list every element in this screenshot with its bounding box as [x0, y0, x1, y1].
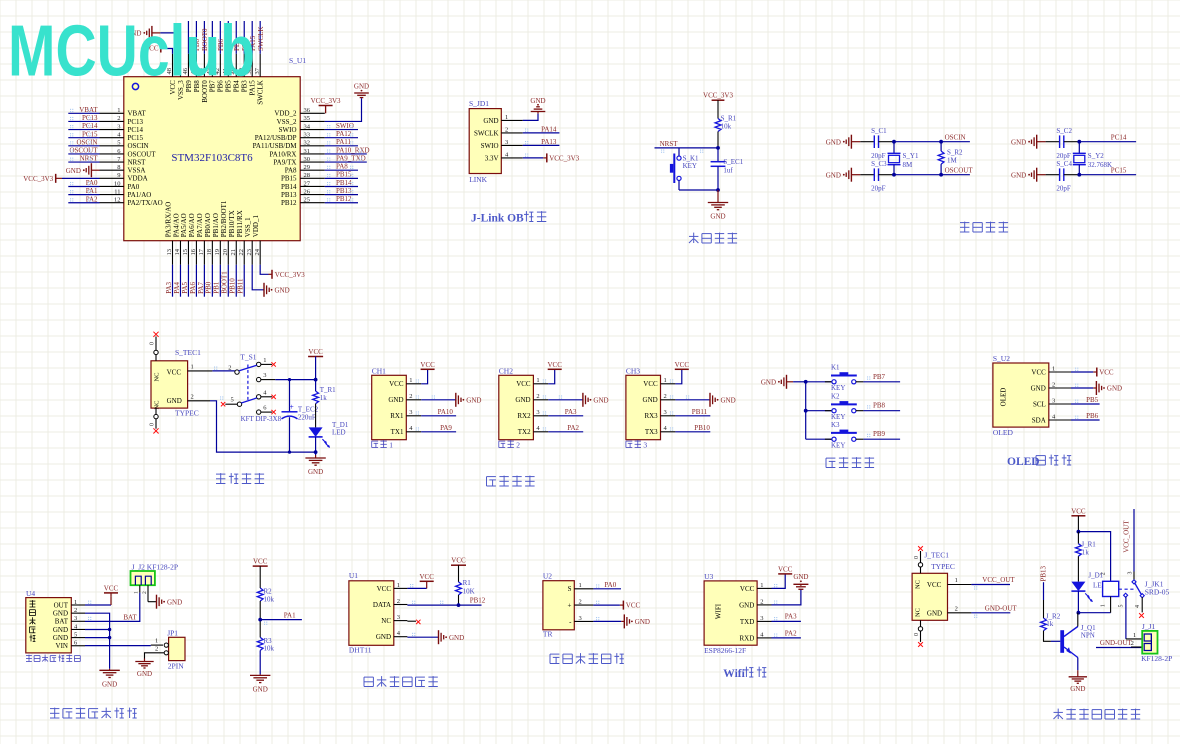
svg-text:3: 3 — [117, 123, 120, 130]
svg-text:PA11: PA11 — [336, 138, 352, 146]
svg-text:PB10: PB10 — [229, 278, 237, 294]
svg-text:TR: TR — [543, 630, 553, 639]
svg-text:VCC: VCC — [389, 380, 404, 388]
svg-text:GND: GND — [102, 680, 117, 688]
svg-text:PA6/AO: PA6/AO — [188, 213, 196, 237]
svg-text:GND: GND — [593, 396, 608, 404]
svg-text:VSS_1: VSS_1 — [244, 217, 252, 237]
svg-text:PA5: PA5 — [181, 281, 189, 293]
svg-text:R2: R2 — [264, 588, 273, 596]
svg-text:GND: GND — [739, 601, 754, 609]
svg-text:SWIO: SWIO — [336, 122, 354, 130]
svg-text:PA12: PA12 — [336, 130, 352, 138]
svg-text:CH2: CH2 — [499, 367, 513, 376]
svg-text:GND: GND — [483, 117, 498, 125]
svg-text:PC15: PC15 — [82, 130, 98, 138]
svg-text:2: 2 — [74, 607, 77, 614]
svg-text:VCC: VCC — [643, 380, 658, 388]
svg-text:20pF: 20pF — [1056, 185, 1071, 193]
svg-text:2: 2 — [505, 126, 508, 133]
svg-text:NC: NC — [915, 580, 922, 589]
svg-text:2: 2 — [516, 441, 520, 450]
svg-text:TYPEC: TYPEC — [931, 562, 955, 571]
svg-text:PC14: PC14 — [128, 126, 144, 134]
svg-text:GND: GND — [721, 396, 736, 404]
svg-text:LED: LED — [332, 428, 346, 436]
svg-text:10k: 10k — [721, 122, 732, 130]
svg-text:U2: U2 — [543, 571, 552, 580]
svg-text:2: 2 — [536, 393, 539, 400]
svg-text:5: 5 — [117, 140, 120, 147]
svg-text:PA13: PA13 — [541, 138, 557, 146]
svg-text:3: 3 — [263, 372, 266, 379]
svg-text:VCC: VCC — [308, 348, 323, 356]
svg-text:3: 3 — [1052, 397, 1055, 404]
svg-text:PA3/RX/AO: PA3/RX/AO — [164, 202, 172, 238]
svg-text:2: 2 — [409, 393, 412, 400]
svg-text:3: 3 — [74, 615, 77, 622]
svg-text:2: 2 — [142, 591, 148, 594]
svg-text:VCC: VCC — [167, 368, 182, 376]
svg-text:PB10/TX: PB10/TX — [228, 210, 236, 237]
svg-text:GND: GND — [635, 618, 650, 626]
svg-text:K2: K2 — [831, 393, 840, 401]
svg-text:2: 2 — [955, 606, 958, 613]
svg-text:VDD_2: VDD_2 — [274, 110, 297, 118]
svg-text:VCC: VCC — [419, 573, 434, 581]
svg-text:NC: NC — [915, 608, 922, 617]
svg-text:GND-OUT: GND-OUT — [1100, 639, 1133, 647]
svg-text:1: 1 — [263, 357, 266, 364]
svg-text:PA0: PA0 — [604, 581, 616, 589]
svg-text:NC: NC — [381, 617, 391, 625]
svg-text:TX3: TX3 — [645, 428, 658, 436]
svg-text:OSCIN: OSCIN — [128, 142, 149, 150]
svg-text:30: 30 — [304, 156, 311, 163]
svg-text:1: 1 — [191, 364, 194, 371]
svg-text:GND: GND — [761, 378, 776, 386]
svg-text:1k: 1k — [320, 394, 328, 402]
svg-text:J-Link OB: J-Link OB — [471, 213, 524, 225]
svg-text:VCC_3V3: VCC_3V3 — [549, 154, 579, 162]
svg-text:PA2: PA2 — [567, 424, 579, 432]
svg-text:20pF: 20pF — [871, 152, 886, 160]
svg-text:8M: 8M — [903, 161, 914, 169]
svg-text:PB12: PB12 — [470, 596, 486, 604]
svg-text:3: 3 — [579, 615, 582, 622]
svg-text:1: 1 — [74, 599, 77, 606]
svg-text:S_C4: S_C4 — [1056, 160, 1072, 168]
svg-text:1: 1 — [505, 114, 508, 121]
svg-text:3: 3 — [505, 139, 508, 146]
svg-text:PB8: PB8 — [873, 402, 886, 410]
svg-text:18: 18 — [206, 249, 213, 256]
svg-text:SWCLK: SWCLK — [257, 27, 265, 52]
svg-text:PA12/USB/DP: PA12/USB/DP — [255, 134, 297, 142]
svg-text:2: 2 — [760, 598, 763, 605]
svg-text:10K: 10K — [463, 587, 475, 595]
svg-text:SRD-05: SRD-05 — [1145, 588, 1170, 597]
svg-text:NC: NC — [154, 400, 161, 409]
svg-text:BOOT1: BOOT1 — [221, 271, 229, 294]
svg-text:J_R1: J_R1 — [1081, 541, 1096, 549]
svg-text:26: 26 — [304, 188, 311, 195]
svg-text:8: 8 — [117, 164, 120, 171]
svg-text:CH1: CH1 — [372, 367, 386, 376]
svg-text:NRST: NRST — [660, 140, 679, 148]
svg-text:OLED: OLED — [1000, 388, 1008, 407]
svg-text:VIN: VIN — [56, 642, 68, 650]
svg-text:PA3: PA3 — [785, 613, 797, 621]
svg-text:NC: NC — [154, 372, 161, 381]
svg-text:GND: GND — [308, 468, 323, 476]
svg-text:GND: GND — [53, 634, 68, 642]
svg-text:T_S1: T_S1 — [240, 353, 257, 362]
svg-text:VCC: VCC — [927, 581, 942, 589]
svg-text:PA3: PA3 — [565, 408, 577, 416]
svg-text:GND: GND — [710, 213, 725, 221]
svg-text:SWCLK: SWCLK — [257, 80, 265, 105]
svg-text:PB6: PB6 — [1086, 412, 1099, 420]
svg-text:2: 2 — [117, 115, 120, 122]
svg-text:PB1: PB1 — [213, 281, 221, 294]
svg-text:1: 1 — [1052, 365, 1055, 372]
svg-text:NPN: NPN — [1081, 632, 1095, 640]
svg-text:PA7: PA7 — [197, 281, 205, 293]
svg-text:OLED: OLED — [993, 428, 1014, 437]
svg-text:GND-OUT: GND-OUT — [985, 605, 1018, 613]
svg-text:2: 2 — [579, 599, 582, 606]
svg-text:3: 3 — [760, 615, 763, 622]
svg-text:NRST: NRST — [128, 158, 147, 166]
svg-text:PB10: PB10 — [694, 424, 710, 432]
svg-text:VCC_3V3: VCC_3V3 — [703, 92, 733, 100]
svg-text:PB5: PB5 — [1086, 396, 1099, 404]
svg-text:3: 3 — [1128, 572, 1134, 575]
svg-text:PB0/AO: PB0/AO — [204, 213, 212, 237]
svg-text:GND: GND — [66, 167, 81, 175]
svg-text:S: S — [568, 585, 572, 593]
svg-text:U4: U4 — [26, 589, 35, 598]
svg-text:PA9/TX: PA9/TX — [273, 158, 296, 166]
svg-text:2: 2 — [1052, 381, 1055, 388]
svg-text:BAT: BAT — [123, 613, 137, 621]
svg-text:GND: GND — [530, 97, 545, 105]
svg-text:S_C1: S_C1 — [871, 127, 887, 135]
svg-text:GND: GND — [275, 286, 290, 294]
svg-text:GND: GND — [167, 397, 182, 405]
svg-text:10k: 10k — [264, 595, 275, 603]
svg-text:12: 12 — [114, 197, 121, 204]
svg-text:GND: GND — [388, 396, 403, 404]
svg-text:PC13: PC13 — [82, 114, 98, 122]
svg-text:1k: 1k — [1046, 620, 1054, 628]
svg-text:1: 1 — [760, 582, 763, 589]
svg-text:3.3V: 3.3V — [485, 154, 499, 162]
svg-text:K3: K3 — [831, 421, 840, 429]
svg-text:GND: GND — [376, 633, 391, 641]
svg-text:VSS_2: VSS_2 — [277, 118, 297, 126]
svg-text:PA1: PA1 — [284, 612, 296, 620]
svg-text:2PIN: 2PIN — [168, 662, 184, 671]
svg-text:SWIO: SWIO — [279, 126, 297, 134]
svg-text:1: 1 — [409, 377, 412, 384]
svg-text:5: 5 — [74, 631, 77, 638]
svg-text:PA1/AO: PA1/AO — [128, 191, 152, 199]
svg-text:SCL: SCL — [1033, 400, 1046, 408]
svg-text:CH3: CH3 — [626, 367, 640, 376]
svg-text:9: 9 — [117, 172, 120, 179]
svg-text:KF128-2P: KF128-2P — [1141, 654, 1172, 663]
svg-text:PA10_RXD: PA10_RXD — [336, 146, 370, 154]
svg-text:14: 14 — [174, 248, 181, 255]
svg-text:1: 1 — [155, 638, 158, 645]
svg-text:16: 16 — [190, 248, 197, 255]
svg-text:27: 27 — [304, 180, 311, 187]
svg-text:1: 1 — [664, 377, 667, 384]
svg-text:5: 5 — [1119, 605, 1125, 608]
svg-text:13: 13 — [166, 249, 173, 256]
svg-text:VCC: VCC — [778, 565, 793, 573]
svg-text:PA0: PA0 — [128, 183, 140, 191]
svg-text:35: 35 — [304, 115, 311, 122]
svg-text:PB15: PB15 — [336, 171, 352, 179]
svg-text:SDA: SDA — [1032, 416, 1046, 424]
svg-text:+: + — [568, 602, 572, 610]
svg-text:J_TEC1: J_TEC1 — [924, 551, 949, 560]
svg-text:PB11/RX: PB11/RX — [236, 210, 244, 237]
svg-text:S_C3: S_C3 — [871, 160, 887, 168]
svg-text:VCC_3V3: VCC_3V3 — [23, 175, 53, 183]
svg-text:GND: GND — [1107, 385, 1122, 393]
svg-text:PB9: PB9 — [873, 430, 886, 438]
svg-text:GND: GND — [253, 685, 268, 693]
svg-text:PA1: PA1 — [86, 187, 98, 195]
svg-text:ESP8266-12F: ESP8266-12F — [704, 646, 746, 655]
svg-text:VCC: VCC — [451, 557, 466, 565]
svg-text:28: 28 — [304, 172, 311, 179]
svg-text:33: 33 — [304, 131, 311, 138]
svg-text:OSCOUT: OSCOUT — [69, 147, 98, 155]
svg-text:PA5/AO: PA5/AO — [180, 213, 188, 237]
svg-text:RX2: RX2 — [517, 412, 531, 420]
svg-text:PB13: PB13 — [336, 187, 352, 195]
svg-text:PB0: PB0 — [205, 281, 213, 294]
svg-text:LINK: LINK — [469, 175, 487, 184]
svg-text:PC14: PC14 — [82, 122, 98, 130]
svg-text:0: 0 — [914, 556, 920, 559]
svg-text:VCC: VCC — [626, 602, 641, 610]
svg-text:25: 25 — [304, 197, 311, 204]
svg-text:PB13: PB13 — [281, 191, 297, 199]
svg-text:VCC: VCC — [420, 361, 435, 369]
svg-text:19: 19 — [214, 249, 221, 256]
svg-text:VCC: VCC — [1031, 368, 1046, 376]
svg-text:PA4: PA4 — [173, 281, 181, 293]
svg-text:KEY: KEY — [683, 162, 697, 170]
svg-text:1: 1 — [536, 377, 539, 384]
svg-text:VCC: VCC — [675, 361, 690, 369]
svg-text:PB7: PB7 — [873, 373, 886, 381]
svg-text:GND: GND — [449, 634, 464, 642]
svg-text:29: 29 — [304, 164, 311, 171]
svg-text:22: 22 — [238, 249, 245, 256]
svg-text:PB11: PB11 — [237, 278, 245, 294]
svg-text:20pF: 20pF — [871, 185, 886, 193]
svg-text:PB13: PB13 — [1039, 565, 1047, 581]
svg-text:1: 1 — [579, 582, 582, 589]
svg-text:DHT11: DHT11 — [349, 645, 372, 654]
svg-text:GND: GND — [793, 573, 808, 581]
svg-text:PA3: PA3 — [165, 281, 173, 293]
svg-text:VCC: VCC — [377, 585, 392, 593]
svg-text:34: 34 — [304, 123, 311, 130]
svg-text:VCC: VCC — [516, 380, 531, 388]
svg-text:KFT DIP-3X8: KFT DIP-3X8 — [241, 415, 282, 423]
svg-text:2: 2 — [191, 394, 194, 401]
svg-text:KEY: KEY — [831, 384, 845, 392]
svg-text:KEY: KEY — [831, 442, 845, 450]
svg-text:VCC: VCC — [104, 584, 119, 592]
svg-text:1: 1 — [117, 107, 120, 114]
svg-text:2: 2 — [397, 598, 400, 605]
svg-text:1: 1 — [397, 582, 400, 589]
svg-text:VCC: VCC — [1071, 507, 1086, 515]
svg-text:S_C2: S_C2 — [1056, 127, 1072, 135]
svg-text:3: 3 — [643, 441, 647, 450]
svg-text:15: 15 — [182, 249, 189, 256]
svg-text:0: 0 — [914, 633, 920, 636]
svg-text:GND: GND — [53, 626, 68, 634]
svg-text:PA4/AO: PA4/AO — [172, 213, 180, 237]
svg-text:OSCOUT: OSCOUT — [128, 150, 157, 158]
svg-text:WIFI: WIFI — [715, 603, 723, 619]
svg-text:J_J1: J_J1 — [1142, 622, 1156, 631]
svg-text:GND: GND — [167, 598, 182, 606]
svg-text:PC13: PC13 — [128, 118, 144, 126]
svg-text:3: 3 — [664, 409, 667, 416]
svg-text:PB14: PB14 — [281, 183, 297, 191]
svg-text:VCC: VCC — [253, 558, 268, 566]
svg-text:1uf: 1uf — [723, 167, 733, 175]
svg-text:GND: GND — [53, 610, 68, 618]
svg-text:PB15: PB15 — [281, 175, 297, 183]
svg-text:RX3: RX3 — [644, 412, 658, 420]
svg-text:PA2/TX/AO: PA2/TX/AO — [128, 199, 163, 207]
svg-text:BAT: BAT — [55, 618, 69, 626]
svg-text:OSCOUT: OSCOUT — [945, 167, 974, 175]
svg-text:32: 32 — [304, 140, 311, 147]
svg-text:VSSA: VSSA — [128, 167, 146, 175]
svg-text:R1: R1 — [463, 579, 472, 587]
svg-text:R3: R3 — [264, 637, 273, 645]
svg-text:PA7/AO: PA7/AO — [196, 213, 204, 237]
svg-text:31: 31 — [304, 148, 311, 155]
svg-text:GND: GND — [515, 396, 530, 404]
svg-text:PB12: PB12 — [336, 195, 352, 203]
svg-text:0: 0 — [150, 342, 156, 345]
svg-text:PA14: PA14 — [541, 125, 557, 133]
svg-text:PC15: PC15 — [1111, 167, 1127, 175]
svg-text:2: 2 — [664, 393, 667, 400]
svg-text:1: 1 — [1101, 604, 1107, 607]
svg-text:PC14: PC14 — [1111, 134, 1127, 142]
svg-text:VDDA: VDDA — [128, 175, 148, 183]
svg-text:1M: 1M — [947, 157, 958, 165]
svg-text:TX1: TX1 — [391, 428, 404, 436]
svg-text:17: 17 — [198, 248, 205, 255]
svg-text:VDD_1: VDD_1 — [252, 215, 260, 238]
svg-text:24: 24 — [254, 248, 261, 255]
svg-text:PB12: PB12 — [281, 199, 297, 207]
svg-text:11: 11 — [114, 188, 120, 195]
svg-text:J_J2 KF128-2P: J_J2 KF128-2P — [132, 562, 178, 571]
svg-text:VCC_3V3: VCC_3V3 — [311, 97, 341, 105]
svg-text:GND: GND — [826, 138, 841, 146]
svg-text:PA0: PA0 — [86, 179, 98, 187]
svg-text:23: 23 — [246, 249, 253, 256]
svg-text:S_TEC1: S_TEC1 — [175, 348, 201, 357]
svg-text:K1: K1 — [831, 364, 840, 372]
svg-text:S_Y2: S_Y2 — [1088, 152, 1104, 160]
svg-text:2: 2 — [1101, 572, 1107, 575]
svg-text:20pF: 20pF — [1056, 152, 1071, 160]
svg-text:4: 4 — [1135, 605, 1141, 608]
svg-text:PA2: PA2 — [86, 195, 98, 203]
svg-text:10k: 10k — [264, 645, 275, 653]
svg-text:SWIO: SWIO — [481, 142, 499, 150]
svg-text:PA10/RX: PA10/RX — [270, 150, 297, 158]
svg-text:S_R2: S_R2 — [947, 149, 963, 157]
svg-text:RX1: RX1 — [390, 412, 404, 420]
svg-text:36: 36 — [304, 107, 311, 114]
svg-text:3: 3 — [409, 409, 412, 416]
svg-text:U1: U1 — [349, 571, 358, 580]
svg-text:PA2: PA2 — [785, 629, 797, 637]
svg-text:2: 2 — [1131, 640, 1134, 647]
svg-text:GND: GND — [927, 609, 942, 617]
svg-text:5: 5 — [231, 397, 234, 404]
svg-text:S_JD1: S_JD1 — [469, 99, 489, 108]
svg-text:3: 3 — [536, 409, 539, 416]
svg-text:20: 20 — [222, 249, 229, 256]
svg-text:10: 10 — [114, 180, 121, 187]
svg-text:VCC_OUT: VCC_OUT — [982, 576, 1015, 584]
svg-text:GND: GND — [1070, 685, 1085, 693]
svg-text:2: 2 — [155, 646, 158, 653]
svg-text:OSCIN: OSCIN — [76, 138, 97, 146]
svg-text:PA8: PA8 — [285, 167, 297, 175]
svg-text:KEY: KEY — [831, 413, 845, 421]
svg-text:DATA: DATA — [373, 601, 391, 609]
svg-text:TX2: TX2 — [518, 428, 531, 436]
svg-text:GND: GND — [1011, 171, 1026, 179]
svg-text:VCC_3V3: VCC_3V3 — [275, 271, 305, 279]
svg-text:PA9: PA9 — [440, 424, 452, 432]
svg-text:VCC: VCC — [547, 361, 562, 369]
svg-text:PA11/USB/DM: PA11/USB/DM — [253, 142, 298, 150]
svg-text:PB1/AO: PB1/AO — [212, 213, 220, 237]
svg-text:RXD: RXD — [740, 634, 755, 642]
svg-text:PA10: PA10 — [438, 408, 454, 416]
svg-text:U3: U3 — [704, 572, 713, 581]
svg-text:GND: GND — [1011, 138, 1026, 146]
svg-text:2: 2 — [228, 365, 231, 372]
svg-text:32.768K: 32.768K — [1088, 161, 1112, 169]
svg-text:PB14: PB14 — [336, 179, 352, 187]
svg-text:S_EC1: S_EC1 — [723, 158, 743, 166]
svg-text:TXD: TXD — [740, 618, 754, 626]
